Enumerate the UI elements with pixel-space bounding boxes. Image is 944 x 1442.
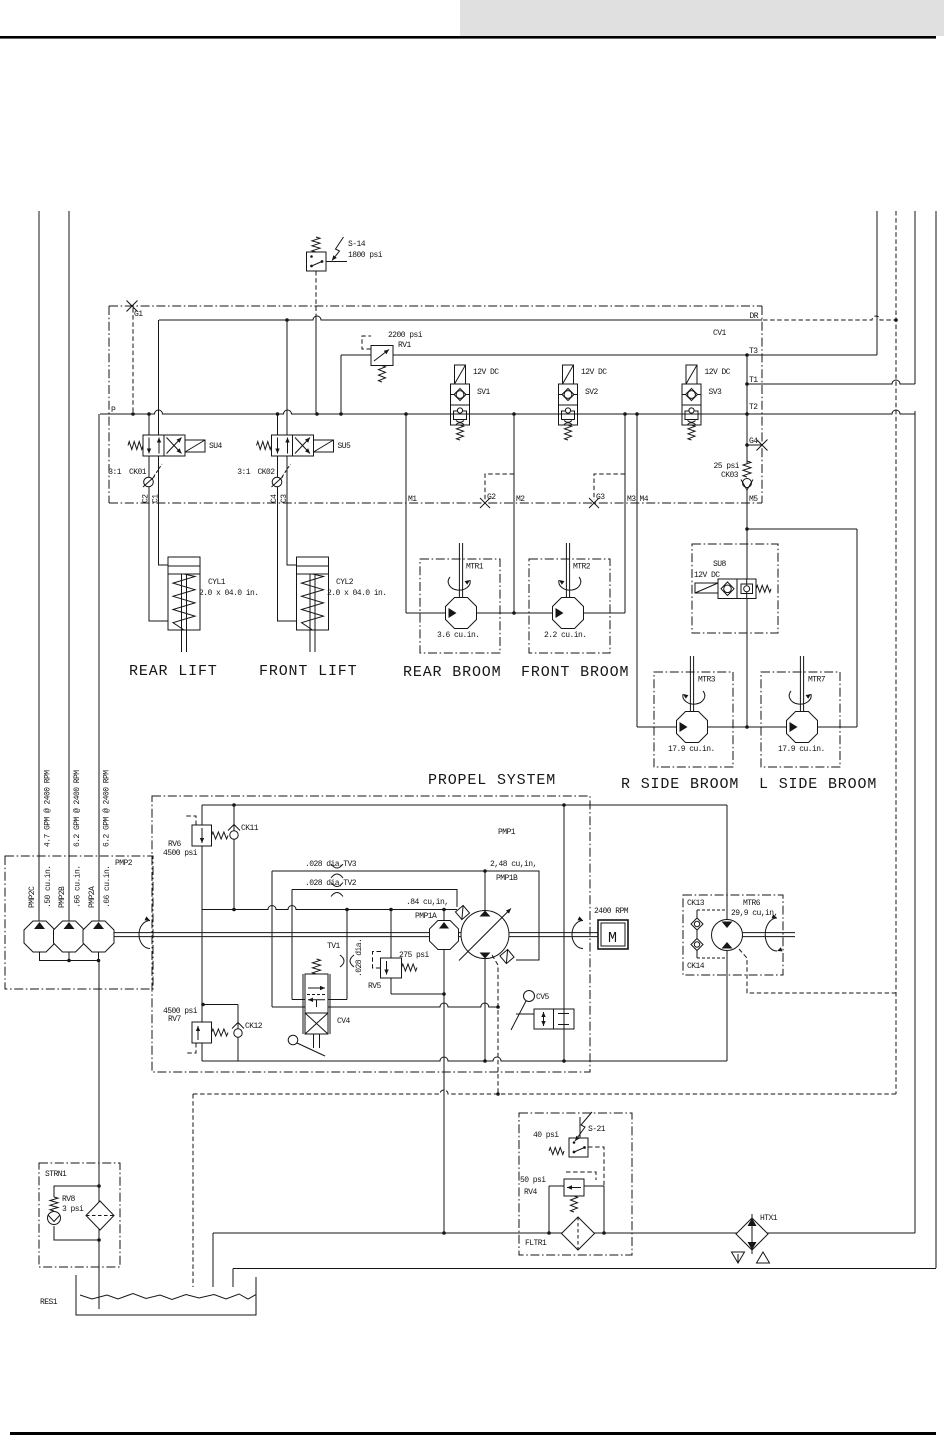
pressure switch S-14 actuation line — [326, 261, 347, 263]
motor MTR1 rotation arrow — [448, 577, 470, 590]
pump PMP1 housing top edge — [202, 804, 727, 806]
svg-text:29,9 cu,in,: 29,9 cu,in, — [731, 909, 778, 918]
wire charge pressure bus — [202, 906, 457, 910]
svg-text:PROPEL SYSTEM: PROPEL SYSTEM — [428, 772, 556, 789]
motor MTR2 shaft — [565, 543, 567, 597]
relief valve RV8 check — [48, 1212, 61, 1225]
propel system enclosure — [152, 796, 590, 1072]
svg-text:MTR3: MTR3 — [698, 676, 716, 685]
cylinder CYL1 rod — [181, 574, 183, 652]
svg-text:RV4: RV4 — [524, 1188, 538, 1197]
svg-text:REAR LIFT: REAR LIFT — [129, 663, 218, 680]
pump PMP2C body — [24, 921, 55, 952]
manifold CU1 boundary right edge — [761, 306, 763, 503]
svg-text:M5: M5 — [749, 495, 758, 504]
wire PMP1B top port — [484, 871, 486, 911]
svg-text:2,48 cu,in,: 2,48 cu,in, — [490, 860, 537, 869]
relief valve RV6 body — [192, 825, 212, 846]
svg-text:G1: G1 — [134, 310, 143, 319]
svg-text:MTR7: MTR7 — [808, 676, 826, 685]
valve SU5 body — [272, 435, 314, 456]
wire propel loop right leg upper — [726, 805, 728, 920]
valve SV3 solenoid — [686, 365, 697, 384]
svg-text:.66 cu.in.: .66 cu.in. — [74, 865, 83, 908]
svg-text:C3: C3 — [280, 494, 289, 503]
svg-text:4500 psi: 4500 psi — [163, 849, 198, 858]
svg-text:TV1: TV1 — [327, 942, 341, 951]
motor MTR7 enclosure — [761, 672, 840, 767]
relief valve RV4 body — [564, 1179, 584, 1196]
wire M2 line down between motors — [513, 414, 515, 613]
wire RV5 outlet to charge line — [391, 993, 444, 995]
relief valve RV8 spring — [50, 1197, 58, 1211]
svg-text:RV7: RV7 — [168, 1015, 182, 1024]
svg-text:M: M — [608, 930, 617, 947]
bottom rule — [10, 1432, 936, 1435]
top rule — [0, 36, 936, 39]
wire drain dashed down to reservoir — [192, 1094, 194, 1287]
wire SU4 drain riser to DR — [158, 320, 160, 435]
wire TV3 left leg — [271, 871, 273, 1007]
svg-text:PMP1: PMP1 — [498, 828, 516, 837]
relief valve RV4 spring — [571, 1196, 578, 1212]
valve CV4 stem — [313, 1034, 315, 1048]
wire S-14 pilot line to P — [315, 271, 317, 314]
wire PMP1A suction line — [443, 950, 445, 1234]
svg-text:2.2 cu.in.: 2.2 cu.in. — [544, 631, 587, 640]
wire side broom return riser — [856, 529, 858, 727]
motor MTR3 flow triangle — [680, 722, 688, 732]
orifice TV2 — [331, 883, 343, 887]
svg-text:G4: G4 — [749, 437, 758, 446]
svg-text:.50 cu.in.: .50 cu.in. — [44, 865, 53, 908]
wire M3 line down to MTR2 — [624, 414, 626, 613]
relief valve RV7 spring — [212, 1029, 229, 1036]
pump PMP1 housing bottom edge — [202, 1057, 727, 1061]
valve CV4 release handle — [288, 1035, 298, 1045]
wire C1 line from SU4 to cylinder CYL1 head — [159, 456, 169, 565]
wire right off-page T1 riser — [914, 211, 916, 384]
pump PMP1 housing left edge — [201, 805, 203, 1061]
pressure switch S-14 body — [307, 252, 327, 271]
node T1 tie junction — [745, 382, 749, 386]
svg-text:25 psi: 25 psi — [713, 462, 739, 471]
relief valve RV6 spring — [212, 832, 229, 839]
svg-text:CK12: CK12 — [245, 1022, 263, 1031]
valve CV4 body — [305, 974, 328, 1034]
valve CV5 tow valve body — [534, 1009, 554, 1029]
svg-text:CK14: CK14 — [687, 962, 705, 971]
valve SV1 solenoid — [455, 365, 466, 384]
check valve CK02 (3:1 pilot operated) — [277, 456, 279, 477]
node charge suction junction — [442, 1231, 446, 1235]
wire case drain dashed collector — [193, 1090, 896, 1094]
wire G1 gauge dashed line to P — [132, 308, 134, 414]
cylinder CYL1 spring — [173, 574, 195, 630]
motor MTR6 body — [712, 920, 743, 951]
relief valve RV1 body — [371, 346, 393, 366]
valve SV1 body — [451, 384, 470, 425]
wire RV8 bypass branch — [54, 1186, 99, 1197]
wire S-21 pilot dashed — [588, 1147, 604, 1186]
svg-text:SV2: SV2 — [585, 388, 599, 397]
relief valve RV5 line — [390, 910, 392, 959]
wire SU5 supply port riser — [277, 414, 279, 435]
wire P / T2 main pressure line — [100, 410, 762, 414]
svg-text:6.2 GPM @ 2400 RPM: 6.2 GPM @ 2400 RPM — [73, 770, 82, 847]
svg-text:.66 cu.in.: .66 cu.in. — [103, 865, 112, 908]
svg-text:CK01: CK01 — [129, 468, 147, 477]
relief valve RV5 spring — [402, 964, 418, 971]
motor MTR6 shaft — [743, 932, 796, 934]
node RV8 branch top — [97, 1184, 101, 1188]
valve SV2 solenoid — [563, 365, 574, 384]
svg-text:FRONT BROOM: FRONT BROOM — [521, 664, 629, 681]
svg-text:12V DC: 12V DC — [473, 368, 499, 377]
pressure switch S-21 spring — [549, 1148, 564, 1155]
wire M4 line down to side brooms — [636, 414, 638, 727]
svg-text:3:1: 3:1 — [108, 468, 122, 477]
node P junctions — [131, 412, 135, 416]
svg-text:CV5: CV5 — [536, 993, 550, 1002]
node DR to dashed riser junction — [894, 318, 898, 322]
relief valve RV1 pilot dashed — [362, 336, 371, 349]
cylinder CYL2 barrel — [297, 557, 329, 630]
port G2 plug — [480, 498, 490, 508]
node PMP1B return junction — [483, 1059, 487, 1063]
svg-text:FRONT LIFT: FRONT LIFT — [259, 663, 358, 680]
node charge loop top tee — [562, 803, 566, 807]
svg-text:RV6: RV6 — [168, 840, 182, 849]
svg-text:SV1: SV1 — [477, 388, 491, 397]
cylinder CYL1 barrel — [168, 557, 200, 630]
motor MTR6 rotation arrow — [765, 918, 777, 951]
valve SV1 spring — [457, 425, 464, 440]
svg-text:17.9 cu.in.: 17.9 cu.in. — [668, 745, 715, 754]
svg-text:17.9 cu.in.: 17.9 cu.in. — [778, 745, 825, 754]
valve SU8 spring — [756, 585, 771, 592]
pump PMP1A charge pump — [443, 910, 445, 922]
svg-text:2.0 x 04.0 in.: 2.0 x 04.0 in. — [199, 589, 259, 598]
svg-text:S-21: S-21 — [588, 1125, 606, 1134]
check valve CK11 — [230, 831, 238, 839]
relief valve RV7 body — [192, 1022, 212, 1043]
relief valve RV7 pilot dashed — [186, 1043, 196, 1053]
svg-text:RES1: RES1 — [40, 1298, 58, 1307]
motor MTR6 enclosure — [683, 895, 783, 975]
port G3 dashed gauge line — [594, 474, 625, 500]
svg-text:40 psi: 40 psi — [533, 1131, 559, 1140]
motor MTR1 body — [446, 598, 477, 629]
svg-text:S-14: S-14 — [348, 240, 366, 249]
reservoir RES1 fluid surface — [80, 1294, 256, 1300]
wire M1 supply down to MTR1 — [405, 414, 407, 613]
wire T3-T1-T2 tie line — [746, 355, 748, 414]
pressure switch S-14 lightning arrow — [332, 237, 344, 261]
heat exchanger HTX1 — [736, 1218, 768, 1250]
svg-text:R SIDE BROOM: R SIDE BROOM — [621, 776, 739, 793]
valve SU8 enclosure — [692, 544, 778, 633]
svg-text:SV3: SV3 — [709, 388, 723, 397]
svg-text:G3: G3 — [596, 493, 605, 502]
wire right off-page drain riser (dashed) — [895, 211, 897, 1094]
port G4 plug — [747, 444, 762, 446]
wire suction line through strainer — [98, 961, 100, 1310]
svg-text:C4: C4 — [270, 494, 279, 503]
relief valve RV4 pilot dashed — [566, 1172, 596, 1180]
wire propel loop right leg lower — [726, 950, 728, 1061]
page header gray bar — [460, 0, 944, 36]
wire SU5 drain riser to DR — [286, 320, 288, 435]
pump PMP2B body — [54, 921, 85, 952]
svg-text:.028 dia,TV3: .028 dia,TV3 — [305, 860, 357, 869]
svg-text:CYL1: CYL1 — [208, 578, 226, 587]
svg-text:RV1: RV1 — [398, 341, 412, 350]
motor MTR6 case drain dashed — [739, 949, 896, 993]
valve SU8 body — [718, 579, 756, 599]
svg-text:6.2 GPM @ 2400 RPM: 6.2 GPM @ 2400 RPM — [103, 770, 112, 847]
relief valve RV6 pilot dashed — [186, 816, 196, 825]
manifold CU1 boundary left edge — [108, 306, 110, 503]
wire return line into reservoir — [212, 1233, 214, 1287]
strainer STRN1 enclosure — [39, 1163, 120, 1267]
wire T2 to CK03 — [746, 414, 748, 463]
port G1 plug — [127, 301, 138, 312]
shaft rotation arrow left — [139, 921, 150, 949]
manifold CU1 boundary top edge — [109, 305, 762, 307]
port G3 plug — [589, 498, 599, 508]
wire T2 line continuation to right — [762, 410, 915, 414]
svg-text:SU8: SU8 — [713, 560, 727, 569]
motor MTR7 shaft — [799, 656, 801, 711]
wire RV1 inlet riser from P — [340, 355, 342, 414]
svg-text:T3: T3 — [749, 347, 758, 356]
svg-text:G2: G2 — [487, 493, 496, 502]
svg-text:PMP1A: PMP1A — [415, 912, 437, 921]
motor MTR7 flow triangle — [790, 722, 798, 732]
svg-text:CK13: CK13 — [687, 899, 705, 908]
svg-text:T1: T1 — [749, 376, 758, 385]
relief valve RV5 body — [381, 958, 402, 978]
svg-text:SU5: SU5 — [338, 442, 352, 451]
wire DR dashed continuation to right riser — [763, 316, 896, 320]
svg-text:P: P — [111, 406, 116, 415]
wire C3 line from SU5 to cylinder CYL2 head — [287, 456, 297, 565]
svg-text:L SIDE BROOM: L SIDE BROOM — [759, 776, 877, 793]
svg-text:REAR BROOM: REAR BROOM — [403, 664, 502, 681]
svg-text:M4: M4 — [640, 495, 649, 504]
wire TV2 left leg — [291, 890, 293, 1000]
valve SU4 solenoid — [185, 440, 205, 452]
pump group PMP2 enclosure — [5, 856, 153, 989]
wire M5 line to SU8 — [746, 489, 748, 579]
motor MTR2 enclosure — [529, 559, 610, 653]
valve CV4 spring — [313, 959, 321, 974]
node side broom supply junction — [745, 725, 749, 729]
check valve CK11 line — [233, 805, 235, 910]
wire left supply line (6.2 GPM pump PMP2B riser) — [68, 211, 70, 921]
node RV8 branch bottom — [97, 1238, 101, 1242]
node M2 motor junction — [512, 611, 516, 615]
svg-text:CK02: CK02 — [258, 468, 276, 477]
svg-text:2200 psi: 2200 psi — [388, 331, 423, 340]
svg-text:CYL2: CYL2 — [336, 578, 354, 587]
cylinder CYL2 spring — [302, 574, 324, 630]
wire left supply line (4.7 GPM pump PMP2C riser) — [38, 211, 40, 921]
motor MTR1 flow triangle — [449, 608, 457, 618]
svg-text:12V DC: 12V DC — [705, 368, 731, 377]
node charge return junction — [562, 1059, 566, 1063]
relief valve RV7 feed — [203, 1004, 238, 1006]
wire T2 return down to heat exchanger line — [914, 411, 916, 1233]
pressure switch S-14 spring — [312, 237, 320, 252]
wire charge return through CV5 — [563, 805, 565, 1061]
motor MTR2 body — [553, 598, 584, 629]
wire pump suction manifold — [40, 952, 99, 961]
wire right off-page outer return riser — [935, 211, 937, 1268]
valve SU4 spring — [128, 442, 143, 450]
valve SV2 body — [559, 384, 578, 425]
wire CV4 port lines — [292, 999, 305, 1001]
port G2 dashed gauge line — [485, 474, 514, 500]
check valve CK13/CK14 crossover — [696, 910, 698, 958]
node T3 tie junction — [745, 353, 749, 357]
heat exchanger HTX1 air symbols — [732, 1252, 745, 1263]
wire rear/front broom motor loop — [406, 612, 625, 614]
wire SU4 supply port riser — [148, 414, 150, 435]
svg-text:MTR6: MTR6 — [743, 899, 761, 908]
motor MTR3 shaft — [689, 656, 691, 711]
svg-text:MTR2: MTR2 — [573, 563, 591, 572]
motor MTR3 enclosure — [654, 672, 733, 767]
motor MTR2 rotation arrow — [559, 577, 581, 590]
cylinder CYL2 rod — [309, 574, 311, 652]
motor MTR7 body — [787, 712, 818, 743]
pump PMP2A body — [83, 921, 114, 952]
motor MTR7 rotation arrow — [789, 691, 811, 704]
wire side broom return top link — [747, 528, 857, 530]
svg-text:MTR1: MTR1 — [466, 563, 484, 572]
svg-text:1800 psi: 1800 psi — [348, 251, 383, 260]
wire right off-page T3 riser — [876, 211, 878, 355]
check valve CK03 — [743, 479, 752, 488]
svg-text:.028 dia,TV2: .028 dia,TV2 — [305, 879, 357, 888]
orifice TV1 — [340, 955, 344, 967]
wire main return line reservoir to T2 riser — [213, 1232, 915, 1234]
orifice TV2 loop line — [292, 890, 457, 908]
motor MTR1 shaft — [458, 543, 460, 597]
manifold CU1 boundary bottom edge — [109, 502, 762, 504]
svg-text:HTX1: HTX1 — [760, 1214, 778, 1223]
pump PMP1B control boxes — [455, 905, 469, 919]
svg-text:PMP2B: PMP2B — [58, 886, 67, 908]
filter FLTR1 element — [562, 1217, 595, 1250]
svg-text:CK11: CK11 — [241, 824, 259, 833]
wire side broom motor loop — [637, 726, 857, 728]
svg-text:3 psi: 3 psi — [62, 1205, 84, 1214]
wire filter bypass loop — [549, 1185, 564, 1187]
filter FLTR1 enclosure — [519, 1113, 632, 1255]
svg-text:275 psi: 275 psi — [399, 951, 430, 960]
check valve CK01 (3:1 pilot operated) — [148, 456, 150, 477]
motor MTR1 enclosure — [420, 559, 500, 653]
svg-text:C2: C2 — [142, 494, 151, 503]
wire pump PMP2A pressure riser to P — [98, 414, 100, 921]
pressure switch S-21 sense line — [579, 1117, 581, 1138]
wire servo column TV1 — [346, 910, 348, 1000]
drive shaft PMP2 to PMP1 to motor — [113, 932, 598, 934]
relief valve RV1 spring — [379, 366, 386, 383]
check valve CK12 — [234, 1029, 242, 1037]
wire PMP1B case drain dashed — [492, 955, 498, 1094]
svg-text:DR: DR — [749, 312, 758, 321]
svg-text:CV4: CV4 — [337, 1017, 351, 1026]
node case drain junction — [496, 1092, 500, 1096]
node SU5 drain riser junction on DR — [285, 318, 289, 322]
svg-text:.028 dia.: .028 dia. — [355, 939, 364, 977]
svg-text:2.0 x 04.0 in.: 2.0 x 04.0 in. — [327, 589, 387, 598]
wire PMP1B bottom port — [484, 959, 486, 1062]
pressure switch S-21 body — [569, 1138, 588, 1157]
svg-text:RV8: RV8 — [62, 1195, 76, 1204]
wire T3 tank line from RV1 to right riser — [341, 354, 877, 356]
electric motor M box — [598, 920, 628, 949]
svg-text:T2: T2 — [749, 403, 758, 412]
valve SV3 body — [682, 384, 701, 425]
svg-text:3.6 cu.in.: 3.6 cu.in. — [437, 631, 480, 640]
valve SV2 spring — [565, 425, 572, 440]
valve SV3 spring — [688, 425, 695, 440]
svg-text:FLTR1: FLTR1 — [525, 1239, 547, 1248]
wire C2 line from CK01 to cylinder CYL1 base — [149, 487, 168, 621]
svg-text:M1: M1 — [408, 495, 417, 504]
reservoir RES1 tank — [76, 1275, 256, 1315]
check valve CK03 spring — [743, 461, 751, 477]
svg-text:STRN1: STRN1 — [45, 1170, 67, 1179]
relief valve RV5 pilot dashed — [373, 952, 382, 969]
svg-text:4.7 GPM @ 2400 RPM: 4.7 GPM @ 2400 RPM — [44, 770, 53, 847]
svg-text:PMP1B: PMP1B — [496, 874, 518, 883]
motor MTR3 rotation arrow — [683, 691, 705, 704]
pump PMP1B variable displacement pump — [461, 911, 509, 959]
svg-text:12V DC: 12V DC — [581, 368, 607, 377]
node M5 side broom tee — [745, 527, 749, 531]
svg-text:2400 RPM: 2400 RPM — [594, 907, 629, 916]
orifice TV3 — [331, 864, 343, 868]
valve SU4 body — [143, 435, 185, 456]
wire outer return into reservoir — [232, 1269, 234, 1288]
pressure switch S-21 lightning arrow — [575, 1112, 592, 1141]
svg-text:SU4: SU4 — [209, 442, 223, 451]
svg-text:3:1: 3:1 — [237, 468, 251, 477]
svg-text:C1: C1 — [152, 494, 161, 503]
strainer STRN1 element — [86, 1201, 114, 1230]
svg-text:PMP2C: PMP2C — [28, 886, 37, 908]
svg-text:M2: M2 — [516, 495, 525, 504]
wire DR drain line — [159, 316, 762, 320]
valve CV5 lever — [524, 991, 535, 1002]
wire outer return line — [233, 1268, 936, 1270]
motor MTR3 body — [677, 712, 708, 743]
svg-text:12V DC: 12V DC — [694, 571, 720, 580]
valve SU8 solenoid — [695, 583, 718, 593]
svg-text:PMP2A: PMP2A — [88, 886, 97, 908]
svg-text:CV1: CV1 — [713, 329, 727, 338]
wire T1 line — [747, 380, 915, 384]
orifice TV3 loop line — [272, 871, 539, 960]
svg-text:M3: M3 — [627, 495, 636, 504]
valve SU5 spring — [257, 442, 272, 450]
